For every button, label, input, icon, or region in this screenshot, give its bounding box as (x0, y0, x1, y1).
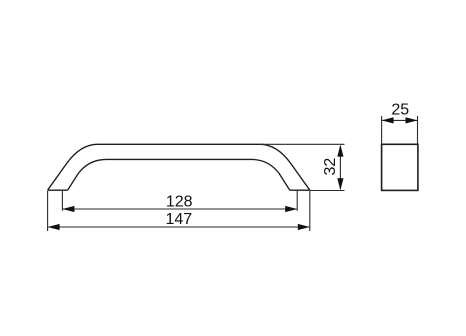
128 extension line right (296, 191, 298, 211)
25 dimension arrow right (406, 117, 418, 123)
side view rectangle (382, 144, 418, 190)
svg-text:32: 32 (322, 158, 339, 176)
32 dimension arrow up (337, 145, 343, 157)
extension line from handle top to 32-dimension (260, 143, 345, 145)
32 dimension line (339, 146, 341, 189)
147 dimension arrow left (48, 224, 60, 230)
extension line from handle foot bottom to 32-dimension (310, 190, 345, 192)
128 dimension arrow left (62, 206, 74, 212)
147 extension line left (47, 191, 49, 231)
25 extension line left (381, 116, 383, 143)
svg-text:128: 128 (166, 194, 193, 211)
128 dimension arrow right (285, 206, 297, 212)
svg-text:147: 147 (165, 211, 192, 228)
handle front view outline (outer edge) (48, 144, 310, 190)
128 dimension line (63, 208, 297, 210)
25 dimension arrow left (382, 117, 394, 123)
25 dimension line (382, 119, 417, 121)
svg-text:25: 25 (391, 102, 409, 119)
32 dimension arrow down (337, 178, 343, 190)
128 extension line left (61, 191, 63, 211)
handle front view outline (inner edge) (68, 159, 290, 190)
147 dimension arrow right (298, 224, 310, 230)
handle right foot bottom line (290, 189, 310, 191)
25 extension line right (417, 116, 419, 143)
147 extension line right (309, 191, 311, 231)
handle left foot bottom line (48, 189, 68, 191)
147 dimension line (48, 226, 309, 228)
